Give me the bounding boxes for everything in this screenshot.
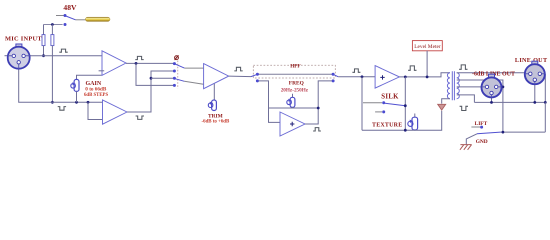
label phase symbol bbox=[175, 55, 179, 60]
wire hpf to silk bbox=[338, 76, 377, 78]
hpf left top contact bbox=[256, 73, 259, 76]
wire freq pot to feedback bbox=[292, 106, 294, 109]
earth ground symbol bbox=[460, 145, 472, 150]
wire U1B output bbox=[127, 71, 174, 112]
hpf right bottom contact bbox=[332, 79, 335, 82]
wire gain pot top bbox=[77, 75, 102, 79]
node XLR2 ground junction bbox=[533, 101, 536, 104]
wire texture pot stub bbox=[414, 114, 416, 118]
connector J1 pin 3 bbox=[22, 54, 25, 57]
svg-text:MIC INPUT: MIC INPUT bbox=[5, 36, 42, 43]
phase switch contact d3 bbox=[173, 77, 176, 80]
silk switch top stub bbox=[363, 102, 382, 104]
opamp U4 plus bbox=[380, 75, 384, 79]
node XLR1 ground junction bbox=[490, 101, 493, 104]
wire XLR1 bottom pin drop bbox=[491, 93, 493, 103]
potentiometer TRIM arrowhead bbox=[210, 102, 213, 105]
wire hpf feedback top bbox=[269, 107, 319, 109]
phase switch arm lower bbox=[176, 79, 185, 82]
phase switch contact d1 bbox=[173, 62, 176, 65]
connector J2 pin2 bbox=[485, 85, 488, 88]
phase switch contact d2 bbox=[173, 70, 176, 73]
connector J1 mic XLR body bbox=[8, 47, 30, 69]
node silk pivot bbox=[404, 104, 407, 107]
potentiometer FREQ wiper bbox=[287, 100, 292, 105]
wire freq pot stub bbox=[292, 94, 294, 98]
node R1 hot junction bbox=[42, 54, 45, 57]
level meter box bbox=[412, 41, 442, 51]
potentiometer TRIM wiper bbox=[208, 103, 213, 108]
pulse symbol U4 out bbox=[408, 66, 416, 70]
potentiometer GAIN body bbox=[74, 79, 79, 91]
svg-text:FREQ: FREQ bbox=[289, 80, 304, 86]
wire R2 riser top bbox=[51, 25, 53, 35]
connector J1 pin 1 bbox=[17, 61, 20, 64]
mic XLR inner pin stubs bbox=[8, 56, 30, 69]
phase switch contact d4 bbox=[173, 84, 176, 87]
wire silk switch riser bbox=[404, 77, 406, 130]
pulse symbol input hot bbox=[59, 49, 67, 52]
wire secondary tap2 bbox=[457, 80, 503, 132]
node silk branch bbox=[361, 75, 364, 78]
wire U1A output bbox=[126, 62, 174, 64]
svg-text:Level Meter: Level Meter bbox=[414, 44, 441, 50]
wire TRIM stub bbox=[213, 84, 215, 100]
op-amp U1B bbox=[103, 100, 128, 124]
connector J2 pin1 bbox=[490, 91, 493, 94]
wire level meter drop bbox=[426, 51, 428, 77]
silk switch top contact bbox=[382, 101, 385, 104]
phantom switch S1 arm bbox=[66, 16, 76, 20]
node R2 cold junction bbox=[51, 101, 54, 104]
wire hpf filter input bbox=[259, 81, 283, 123]
wire silk riser bbox=[361, 77, 363, 130]
pulse symbol U1B out inverted bbox=[136, 116, 144, 119]
hpf right top contact bbox=[332, 73, 335, 76]
transformer T1 primary stub top bbox=[448, 72, 451, 74]
wire switch to fuse bbox=[76, 19, 86, 21]
potentiometer GAIN wiper bbox=[71, 84, 76, 89]
node U3 feedback junction bbox=[317, 107, 320, 110]
silk switch bottom contact bbox=[382, 110, 385, 113]
wire secondary tap1 to XLR2 bbox=[457, 73, 531, 74]
transformer T1 core bbox=[452, 71, 454, 100]
wire mic pin1 stub bbox=[5, 55, 13, 57]
J2 inner pin stubs bbox=[482, 87, 501, 97]
connector J3 XLR tab bbox=[532, 61, 538, 64]
op-amp U4 silk bbox=[375, 66, 399, 89]
wire R2 lead crossing to cold bbox=[51, 46, 53, 103]
node U1A output branch bbox=[135, 62, 138, 65]
potentiometer TRIM body bbox=[212, 100, 217, 111]
wire output ground rail bbox=[474, 74, 545, 103]
node U4 out riser junction bbox=[404, 76, 407, 79]
connector J2 body bbox=[482, 77, 502, 97]
wire rail right drop bbox=[544, 102, 546, 132]
potentiometer FREQ arrowhead bbox=[288, 99, 291, 102]
lift switch top stub bbox=[471, 126, 480, 128]
op-amp U1A spare input stub bbox=[99, 70, 105, 72]
svg-text:SILK: SILK bbox=[381, 93, 399, 100]
phase switch dashed link bbox=[177, 61, 179, 89]
node cold junction x52 duplicate bbox=[75, 101, 78, 104]
transformer T1 primary coil bbox=[447, 73, 450, 99]
wire secondary tap4 bbox=[457, 95, 475, 103]
hpf right switch arm bbox=[333, 74, 338, 77]
connector J2 XLR tab bbox=[489, 74, 495, 77]
resistor R2 bbox=[51, 35, 54, 46]
pulse symbol U1A out bbox=[135, 56, 143, 59]
pulse symbol secondary top bbox=[459, 65, 467, 69]
J3 inner pin stubs bbox=[525, 74, 544, 84]
silk switch arm bbox=[385, 103, 405, 105]
hpf left switch arm bbox=[251, 74, 257, 76]
connector J3 pin1 bbox=[533, 78, 536, 81]
wire R1 riser top bbox=[43, 25, 45, 35]
svg-text:6dB STEPS: 6dB STEPS bbox=[84, 93, 108, 98]
svg-text:HPF: HPF bbox=[290, 63, 300, 69]
wire lift to ground bbox=[466, 134, 477, 145]
connector J3 pin3 bbox=[538, 72, 541, 75]
node XLR1 right pin junction bbox=[502, 86, 505, 89]
phantom switch S1 top contact bbox=[64, 14, 67, 17]
silk switch bottom stub bbox=[375, 111, 382, 113]
hpf bypass wire bbox=[257, 73, 333, 75]
HPF dashed box bbox=[253, 65, 335, 78]
pulse symbol U3 out bbox=[313, 128, 321, 131]
lift switch top contact bbox=[480, 126, 483, 129]
svg-text:0 to 66dB: 0 to 66dB bbox=[85, 86, 107, 92]
wire U2 output bbox=[229, 75, 251, 78]
resistor R1 bbox=[42, 35, 45, 46]
pulse symbol hpf out bbox=[352, 69, 360, 72]
connector J1 pin 2 bbox=[12, 54, 15, 57]
potentiometer GAIN wiper arrowhead bbox=[72, 82, 75, 85]
node resistor rail junction bbox=[51, 23, 54, 26]
op-amp U1A bbox=[102, 51, 126, 76]
svg-text:GND: GND bbox=[476, 139, 488, 145]
pulse symbol secondary bottom inverted bbox=[460, 106, 468, 110]
phantom switch S1 top contact stub bbox=[56, 15, 64, 17]
op-amp U2 diff bbox=[204, 64, 229, 89]
node rail corner junction bbox=[544, 101, 547, 104]
wire gain pot bottom bbox=[76, 91, 78, 102]
connector J3 body bbox=[525, 64, 545, 84]
transformer T1 secondary coil bbox=[457, 73, 460, 99]
wire lift rail bbox=[501, 131, 546, 133]
wire XLR1 right pin stub bbox=[496, 86, 503, 88]
wire opamp2 lower input branch bbox=[88, 102, 104, 119]
hpf left bottom contact bbox=[256, 79, 259, 82]
wire B riser to d3 bbox=[151, 77, 174, 79]
wire mic cold bbox=[19, 62, 104, 102]
phase switch arm upper bbox=[176, 64, 185, 68]
fuse F1 bbox=[85, 17, 110, 21]
wire pole2 to U2 bbox=[184, 81, 205, 84]
svg-text:48V: 48V bbox=[63, 3, 77, 12]
connector J2 pin3 bbox=[495, 85, 498, 88]
svg-text:TEXTURE: TEXTURE bbox=[372, 123, 402, 129]
pulse symbol U2 out bbox=[234, 67, 242, 71]
op-amp U3 hpf bbox=[280, 112, 305, 136]
wire silk bottom rail bbox=[362, 111, 442, 130]
ground arrow primary bbox=[438, 104, 446, 110]
lift switch arm bbox=[477, 132, 501, 134]
potentiometer TEXTURE wiper bbox=[408, 121, 413, 126]
potentiometer TEXTURE arrowhead bbox=[410, 120, 414, 123]
connector J1 mic XLR tab bbox=[16, 44, 22, 47]
potentiometer FREQ body bbox=[290, 97, 295, 107]
wire mic hot bbox=[26, 55, 104, 57]
wire XLR2 bottom pin drop bbox=[534, 80, 536, 102]
svg-text:20Hz-250Hz: 20Hz-250Hz bbox=[281, 87, 309, 93]
node lift junction bbox=[502, 131, 505, 134]
wire XLR2 right pin stub bbox=[540, 73, 546, 75]
wire secondary tap3 to XLR1 bbox=[457, 86, 487, 88]
wire R1 lead to hot bbox=[43, 46, 45, 56]
potentiometer TEXTURE body bbox=[412, 117, 418, 130]
node level meter junction bbox=[426, 76, 429, 79]
wire U3 output riser bbox=[305, 81, 332, 124]
opamp U3 plus bbox=[290, 122, 294, 126]
node B riser branch bbox=[150, 77, 153, 80]
transformer T1 primary bottom stub bbox=[442, 99, 450, 104]
node rail riser bbox=[404, 129, 407, 132]
wire crossfeed A to d4 bbox=[136, 63, 174, 85]
svg-text:-6dB to +6dB: -6dB to +6dB bbox=[202, 119, 231, 124]
wire U4 output bbox=[399, 73, 447, 77]
wire resistor top rail bbox=[44, 24, 63, 26]
pulse symbol input cold inverted bbox=[58, 107, 66, 111]
connector J3 pin2 bbox=[529, 72, 532, 75]
wire pole1 to U2 bbox=[184, 67, 206, 69]
phantom switch S1 bottom contact bbox=[64, 23, 67, 26]
